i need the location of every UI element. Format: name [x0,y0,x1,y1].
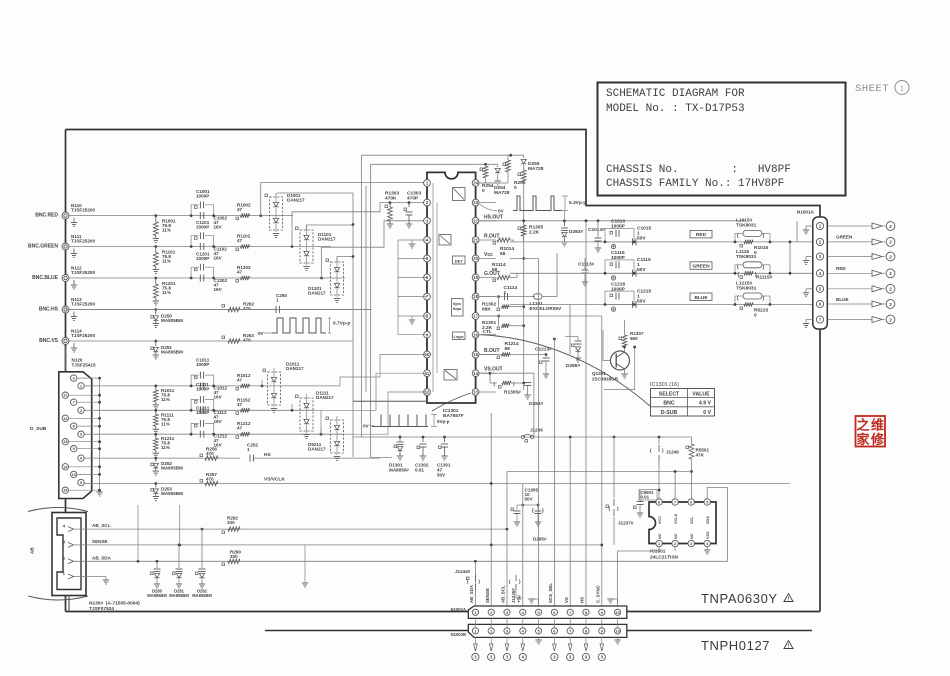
svg-text:470P: 470P [407,196,419,202]
svg-text:TNPA0630Y: TNPA0630Y [701,591,778,606]
svg-text:BNC: BNC [663,401,674,407]
svg-text:68: 68 [500,251,506,257]
svg-text:IC1301 (16): IC1301 (16) [650,382,679,388]
svg-text:0V: 0V [363,424,370,429]
svg-text:SCHEMATIC DIAGRAM FOR: SCHEMATIC DIAGRAM FOR [606,88,745,100]
svg-text:BNC.BLUE: BNC.BLUE [32,275,58,281]
svg-text:DAN217: DAN217 [318,237,336,242]
svg-text:TJSF25200: TJSF25200 [71,238,95,243]
svg-text:NC: NC [658,533,662,539]
svg-text:2: 2 [889,254,892,259]
svg-text:16V: 16V [214,225,223,230]
svg-text:470: 470 [206,477,214,482]
svg-text:SELECT: SELECT [659,391,680,397]
svg-text:HS: HS [580,597,585,603]
svg-text:11%: 11% [162,259,171,264]
svg-text:TSK8031: TSK8031 [736,286,757,292]
svg-text:CTL: CTL [483,329,492,335]
svg-text:0V: 0V [498,209,505,214]
svg-text:D_SUB: D_SUB [30,426,47,432]
svg-text:47K: 47K [696,453,705,458]
svg-text:47: 47 [237,270,243,275]
svg-text:+5V: +5V [516,595,521,603]
svg-text:修: 修 [870,432,885,447]
svg-text:22: 22 [473,218,478,223]
svg-text:1000P: 1000P [196,194,209,199]
svg-text:VSS: VSS [706,531,710,539]
svg-text:470: 470 [243,338,251,343]
svg-text:NC: NC [690,533,694,539]
svg-text:10: 10 [72,472,76,477]
svg-text:0.01: 0.01 [641,495,650,500]
svg-text:1000P: 1000P [611,287,626,293]
svg-text:SHEET: SHEET [855,83,889,95]
svg-text:330: 330 [227,520,235,525]
svg-text:50V: 50V [525,497,534,502]
svg-text:50V: 50V [437,473,446,478]
svg-text:AB_SCL: AB_SCL [501,585,506,603]
svg-text:19: 19 [473,275,478,280]
svg-text:N130# (A-71505-0004): N130# (A-71505-0004) [89,601,140,607]
svg-text:MA805BM: MA805BM [161,350,183,355]
svg-text:23: 23 [473,200,478,205]
svg-text:BNC.RED: BNC.RED [35,213,58,219]
svg-text:2: 2 [889,224,892,229]
svg-text:68: 68 [505,346,511,352]
svg-text:RED: RED [836,266,846,271]
svg-text:TSK8031: TSK8031 [736,223,757,229]
svg-text:1000P: 1000P [196,410,209,415]
svg-text:TJSF07524: TJSF07524 [89,606,114,612]
svg-text:0 V: 0 V [703,410,711,416]
svg-text:14: 14 [473,371,478,376]
svg-text:MA728: MA728 [494,190,510,196]
svg-text:GREEN: GREEN [836,235,853,240]
svg-text:R1305#: R1305# [504,390,521,396]
svg-text:J1245#: J1245# [511,588,516,603]
svg-text:MA805BM: MA805BM [169,593,189,598]
svg-text:VS/VCLK: VS/VCLK [264,477,285,483]
svg-text:470: 470 [206,451,214,456]
svg-text:18: 18 [473,294,478,299]
svg-text:N1002B: N1002B [451,632,466,637]
svg-text:1: 1 [900,86,904,93]
svg-text:2: 2 [889,271,892,276]
svg-text:1000P: 1000P [196,362,209,367]
svg-text:D295#: D295# [533,537,547,542]
svg-text:68K: 68K [482,307,491,313]
svg-text:0.7Vp-p: 0.7Vp-p [333,321,350,327]
svg-text:SENSE: SENSE [485,588,490,603]
svg-text:24LC21TISN: 24LC21TISN [650,555,679,561]
svg-text:D283#: D283# [569,229,583,235]
svg-text:TJSF25200: TJSF25200 [71,333,95,338]
svg-text:D-SUB: D-SUB [661,410,678,416]
svg-text:MA805BM: MA805BM [192,593,212,598]
svg-text:1: 1 [247,447,250,452]
svg-text:J1244#: J1244# [455,569,471,574]
svg-text:AB_SDA: AB_SDA [469,584,474,603]
svg-text:Vcc: Vcc [484,252,493,258]
svg-text:0: 0 [482,188,485,194]
svg-text:TJSF25415: TJSF25415 [72,363,96,368]
svg-text:N1001A: N1001A [797,210,815,215]
svg-text:BNC.GREEN: BNC.GREEN [28,244,58,250]
svg-text:0V: 0V [258,331,265,336]
svg-text:470: 470 [243,306,251,311]
svg-text:R1115#: R1115# [756,275,773,281]
svg-text:11%: 11% [161,397,170,402]
svg-text:D285#: D285# [566,363,580,369]
svg-text:VS: VS [564,597,569,603]
svg-text:IC1501: IC1501 [650,549,666,555]
svg-text:SCS_SEL: SCS_SEL [548,583,553,603]
svg-text:11%: 11% [161,445,170,450]
svg-text:13: 13 [473,390,478,395]
svg-text:MA805BM: MA805BM [147,593,167,598]
svg-text:C_SYNC: C_SYNC [595,584,600,603]
svg-text:24: 24 [473,181,478,186]
svg-text:2: 2 [889,302,892,307]
svg-text:50V: 50V [637,299,646,305]
svg-text:TNPH0127: TNPH0127 [701,638,770,653]
svg-text:SDA: SDA [706,516,710,524]
svg-text:SENSE: SENSE [92,539,108,544]
svg-text:20: 20 [473,256,478,261]
svg-text:15: 15 [473,352,478,357]
svg-text:1: 1 [276,298,279,303]
svg-text:MA805BM: MA805BM [161,491,183,496]
svg-text:之: 之 [856,418,869,433]
svg-text:MA805BM: MA805BM [161,466,183,471]
svg-text:470K: 470K [385,196,397,202]
svg-text:4.9 V: 4.9 V [699,401,712,407]
svg-text:HS.OUT: HS.OUT [484,214,503,220]
svg-text:DAN217: DAN217 [308,291,326,296]
svg-text:DET: DET [455,258,464,263]
svg-text:RED: RED [696,232,707,238]
svg-text:TJSF25200: TJSF25200 [71,207,95,212]
svg-text:5Vp-p: 5Vp-p [437,419,450,424]
svg-text:10: 10 [615,610,620,615]
svg-text:DAN217: DAN217 [308,447,326,452]
svg-text:BLUE: BLUE [836,297,849,302]
svg-text:VS.OUT: VS.OUT [484,367,503,373]
svg-text:2: 2 [889,287,892,292]
svg-text:2SC3938GR: 2SC3938GR [592,377,619,382]
svg-text:家: 家 [856,432,870,447]
svg-text:DAN217: DAN217 [286,366,304,371]
svg-text:TJSF25200: TJSF25200 [71,301,95,306]
svg-text:J1236: J1236 [530,428,543,433]
svg-text:Logic: Logic [454,335,464,339]
svg-text:560: 560 [630,336,638,341]
svg-text:17: 17 [473,314,478,319]
svg-text:21: 21 [473,238,478,243]
svg-text:2: 2 [889,317,892,322]
svg-text:2: 2 [889,240,892,245]
svg-text:R.OUT: R.OUT [484,234,500,240]
svg-text:MA8050#: MA8050# [389,468,409,473]
svg-text:D284#: D284# [529,401,543,407]
svg-text:DAN217: DAN217 [287,198,305,203]
svg-text:VALUE: VALUE [692,391,710,397]
svg-text:MODEL No. : TX-D17P53: MODEL No. : TX-D17P53 [606,103,745,115]
svg-text:10: 10 [615,628,620,633]
svg-text:TJSF25200: TJSF25200 [71,270,95,275]
svg-text:7: 7 [73,400,75,405]
svg-text:5.3Vp-p: 5.3Vp-p [569,200,586,206]
svg-text:CHASSIS FAMILY No.: 17HV8PF: CHASSIS FAMILY No.: 17HV8PF [606,178,784,190]
svg-text:47: 47 [237,426,243,431]
svg-text:47: 47 [237,207,243,212]
svg-text:BLUE: BLUE [694,295,708,301]
svg-text:DAN217: DAN217 [316,395,334,400]
svg-text:SCL: SCL [690,516,694,524]
svg-text:11%: 11% [161,421,170,426]
svg-text:11%: 11% [162,290,171,295]
svg-text:0: 0 [514,185,517,191]
svg-text:AB_SCL: AB_SCL [92,523,111,528]
svg-text:HS: HS [264,452,271,458]
svg-text:C1013#: C1013# [588,227,605,233]
svg-text:0: 0 [754,313,757,319]
svg-text:2.2K: 2.2K [529,230,540,236]
svg-text:Sepa: Sepa [453,307,463,311]
svg-text:16V: 16V [214,394,223,399]
svg-text:7: 7 [674,500,676,505]
svg-text:Sync: Sync [453,302,462,306]
svg-text:J1237#: J1237# [618,521,634,526]
svg-text:16V: 16V [214,256,223,261]
svg-text:1: 1 [504,290,507,296]
svg-text:0.01: 0.01 [415,468,424,473]
svg-text:GREEN: GREEN [692,264,710,270]
svg-text:B.OUT: B.OUT [484,348,500,354]
svg-text:330: 330 [230,554,238,559]
svg-text:50V: 50V [637,267,646,273]
svg-text:11%: 11% [162,228,171,233]
svg-text:VCLK: VCLK [674,513,678,524]
svg-text:EXCELOR05V: EXCELOR05V [530,306,563,312]
svg-text:16V: 16V [214,287,223,292]
svg-text:维: 维 [871,418,884,433]
svg-text:1000P: 1000P [196,256,209,261]
svg-text:68: 68 [492,267,498,273]
svg-text:J1246: J1246 [666,450,679,455]
svg-text:VCC: VCC [658,516,662,524]
svg-text:AB: AB [30,547,35,554]
svg-text:16: 16 [473,332,478,337]
svg-text:NC: NC [674,533,678,539]
svg-text:MA728: MA728 [528,166,544,172]
svg-text:MA805BM: MA805BM [161,318,183,323]
svg-text:47: 47 [237,238,243,243]
svg-text:BNC.VS: BNC.VS [39,338,59,344]
svg-text:1000P: 1000P [196,225,209,230]
svg-text:BNC.HS: BNC.HS [39,307,59,313]
svg-text:AB_SDA: AB_SDA [92,555,112,560]
svg-text:47: 47 [237,402,243,407]
svg-text:50V: 50V [637,236,646,242]
svg-text:Q1301: Q1301 [592,371,606,376]
svg-text:16V: 16V [214,419,223,424]
svg-text:N1002A: N1002A [451,607,466,612]
svg-text:CHASSIS No. : HV8PF: CHASSIS No. : HV8PF [606,164,791,176]
svg-text:47: 47 [237,377,243,382]
svg-text:1000P: 1000P [196,386,209,391]
svg-text:TSK8031: TSK8031 [736,254,757,260]
